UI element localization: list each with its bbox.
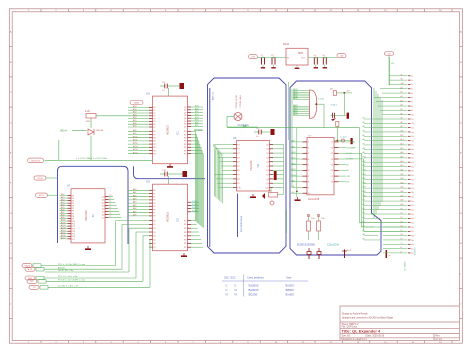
svg-text:Q7: Q7 [184,126,186,128]
svg-text:8a: 8a [411,106,413,108]
svg-text:D4: D4 [401,226,403,228]
svg-text:Q1: Q1 [266,149,269,151]
svg-text:P3: P3 [237,157,239,159]
svg-text:IC24a: IC24a [192,201,197,203]
svg-text:P3: P3 [153,116,155,118]
svg-text:P5: P5 [237,166,239,168]
svg-text:Y5: Y5 [109,210,111,212]
svg-text:P2: P2 [153,197,155,199]
svg-text:I1: I1 [308,142,310,144]
svg-text:P4: P4 [153,118,155,120]
svg-text:AB13: AB13 [293,113,297,116]
svg-text:30a: 30a [411,201,414,203]
svg-text:Q1: Q1 [153,224,155,226]
svg-text:Q6: Q6 [266,170,269,172]
svg-text:Y7: Y7 [109,216,111,218]
svg-text:O8: O8 [331,182,333,184]
svg-text:Q2: Q2 [184,112,186,114]
svg-text:AE8: AE8 [133,214,136,217]
svg-text:R2: R2 [184,228,186,230]
svg-text:P2: P2 [153,113,155,115]
svg-text:Y0: Y0 [109,195,111,197]
svg-text:GCN.TTX: GCN.TTX [31,160,40,162]
svg-text:AD15: AD15 [61,231,66,234]
svg-text:AD3: AD3 [133,113,137,116]
svg-text:7805: 7805 [298,52,304,55]
svg-text:I10: I10 [308,193,311,195]
svg-text:IC2: IC2 [146,180,151,184]
svg-text:AD17: AD17 [61,237,66,240]
svg-text:Q4: Q4 [184,118,186,120]
svg-text:AE6: AE6 [133,207,136,210]
svg-text:P5: P5 [153,121,155,123]
svg-text:Q2: Q2 [102,202,105,204]
svg-text:Updated and converted to KiCAD: Updated and converted to KiCAD by Marcel… [342,317,394,320]
svg-text:B.TX: B.TX [39,195,44,197]
svg-text:AD11: AD11 [133,139,137,142]
svg-text:MC6822: MC6822 [166,212,170,222]
svg-text:P7: P7 [153,127,155,129]
svg-text:Q0: Q0 [102,196,105,198]
svg-text:Q0: Q0 [153,220,155,222]
svg-text:P4: P4 [237,162,239,164]
svg-text:P12: P12 [153,144,156,146]
svg-text:I7: I7 [308,176,310,178]
svg-text:AE2: AE2 [133,194,136,197]
svg-text:Q3: Q3 [266,157,269,159]
svg-text:AB9: AB9 [291,145,294,148]
svg-text:Q7: Q7 [153,247,155,249]
svg-text:’BC000’: ’BC000’ [248,292,258,296]
svg-text:C2: C2 [261,55,263,57]
svg-text:GAL16V8: GAL16V8 [308,197,320,201]
svg-text:P10: P10 [237,187,240,189]
svg-text:74HC04N: 74HC04N [84,210,88,222]
svg-text:P1: P1 [237,149,239,151]
svg-text:Q1: Q1 [184,110,186,112]
svg-text:Q2: Q2 [266,153,269,155]
svg-text:P6: P6 [153,124,155,126]
svg-text:Q5: Q5 [102,211,105,213]
svg-text:AD16: AD16 [61,234,66,237]
svg-text:C7DW 1274C: C7DW 1274C [236,94,238,108]
svg-text:Q3: Q3 [153,232,155,234]
svg-text:AD15: AD15 [133,151,138,154]
svg-text:AE7: AE7 [133,210,136,213]
svg-text:’L’: ’L’ [225,284,228,288]
svg-text:P13: P13 [153,147,156,149]
svg-text:24a: 24a [411,175,414,177]
svg-text:AD1: AD1 [133,108,137,111]
svg-text:AB8: AB8 [291,140,294,143]
svg-text:P11: P11 [153,141,156,143]
svg-text:28a: 28a [411,192,414,194]
svg-text:R6: R6 [184,150,186,152]
svg-text:AD3: AD3 [61,201,65,204]
svg-text:IC2: IC2 [177,217,180,221]
svg-text:R1: R1 [184,224,186,226]
svg-text:Q8: Q8 [266,179,269,181]
svg-text:AD8: AD8 [61,214,65,217]
svg-text:Id: 1/1: Id: 1/1 [436,339,443,341]
svg-text:BD0: BD0 [195,106,199,108]
svg-text:P4: P4 [153,203,155,205]
svg-text:35a: 35a [411,222,414,224]
svg-text:Card address: Card address [247,276,264,280]
svg-text:9a: 9a [411,110,413,112]
svg-text:C12n/C14n: C12n/C14n [327,244,340,247]
svg-text:J: J [10,304,11,306]
svg-text:AD5: AD5 [61,206,65,209]
svg-text:Q6: Q6 [102,214,105,216]
svg-text:AD0: AD0 [133,105,137,108]
svg-text:AD2: AD2 [133,111,137,114]
svg-text:P15: P15 [153,154,156,156]
svg-text:11a: 11a [411,119,414,121]
svg-text:U6: U6 [233,136,237,140]
svg-text:Q3: Q3 [102,205,105,207]
svg-text:Q2: Q2 [153,228,155,230]
svg-text:I6: I6 [308,170,310,172]
svg-text:AD4: AD4 [61,203,65,206]
svg-text:Q9: Q9 [266,183,269,185]
svg-text:Q7: Q7 [266,175,269,177]
svg-text:19a: 19a [411,153,414,155]
svg-text:P1: P1 [153,193,155,195]
svg-text:D6: D6 [401,234,403,236]
svg-text:AD0: AD0 [61,193,65,196]
svg-text:Q5: Q5 [184,121,186,123]
svg-text:’L’: ’L’ [234,284,237,288]
svg-text:P9: P9 [153,134,155,136]
svg-text:P7: P7 [237,175,239,177]
svg-text:CT: CT [401,243,403,245]
svg-text:D7: D7 [401,239,403,241]
svg-text:AD14: AD14 [61,229,66,232]
svg-text:AD1: AD1 [61,196,65,199]
svg-text:’B+000’: ’B+000’ [285,284,295,288]
svg-text:I5: I5 [308,165,310,167]
svg-text:Y2: Y2 [109,201,111,203]
svg-text:9B: 9B [401,79,403,81]
svg-text:26a: 26a [411,184,414,186]
svg-text:I4: I4 [308,159,310,161]
svg-text:Size: A3: Size: A3 [342,335,351,338]
svg-text:P6: P6 [153,209,155,211]
svg-text:31a: 31a [411,205,414,207]
svg-text:Q4: Q4 [153,236,155,238]
svg-text:BD5: BD5 [195,120,199,122]
svg-text:Size: Size [286,276,292,280]
svg-text:16a: 16a [411,140,414,142]
svg-text:A7: A7 [67,184,71,188]
svg-text:IC24d: IC24d [192,210,197,212]
svg-text:14a: 14a [411,132,414,134]
svg-text:CS2: CS2 [347,176,351,178]
svg-text:4a: 4a [411,89,413,91]
svg-text:39a: 39a [411,240,414,242]
svg-text:DSL: DSL [291,186,295,188]
svg-text:AD7: AD7 [61,211,65,214]
svg-text:AD10: AD10 [61,219,66,222]
svg-text:AD13: AD13 [61,226,66,229]
svg-text:37a: 37a [411,231,414,233]
svg-text:I3: I3 [308,153,310,155]
svg-text:20a: 20a [411,158,414,160]
svg-text:O4: O4 [331,159,333,161]
svg-text:BD1: BD1 [195,108,199,110]
svg-text:I2: I2 [308,147,310,149]
svg-text:5a: 5a [411,93,413,95]
svg-text:Design by Anders Resvik: Design by Anders Resvik [342,313,368,316]
svg-text:Q4: Q4 [102,208,105,210]
svg-text:P14: P14 [153,150,156,152]
svg-text:74LS245: 74LS245 [249,160,253,171]
svg-text:R1: R1 [184,134,186,136]
svg-text:AE1: AE1 [133,191,136,194]
svg-text:32a: 32a [411,210,414,212]
svg-text:O7: O7 [331,176,333,178]
svg-text:P6: P6 [237,170,239,172]
svg-text:BD4: BD4 [195,117,199,119]
svg-text:’B10000’: ’B10000’ [248,284,259,288]
svg-text:J: J [460,304,461,306]
svg-text:BD2: BD2 [195,111,199,113]
svg-text:AB[0..15]: AB[0..15] [212,91,215,100]
svg-text:AD9: AD9 [133,132,137,135]
svg-text:P10: P10 [153,138,156,140]
svg-text:21a: 21a [411,162,414,164]
svg-text:D3: D3 [401,221,403,223]
svg-text:AD5: AD5 [133,119,137,122]
svg-text:’B10000’: ’B10000’ [248,288,259,292]
svg-text:AD12: AD12 [133,142,138,145]
svg-text:P1: P1 [153,110,155,112]
svg-text:40a: 40a [411,244,414,246]
svg-text:’B8000’: ’B8000’ [285,288,295,292]
svg-text:P0: P0 [153,107,155,109]
svg-text:C3: C3 [271,55,273,57]
svg-text:R4: R4 [184,144,186,146]
svg-text:QREL: QREL [134,102,140,104]
svg-text:| Date: 2025-05-30: | Date: 2025-05-30 [365,335,385,338]
svg-text:P3: P3 [153,200,155,202]
svg-text:Title: QL Expander 4: Title: QL Expander 4 [342,328,382,333]
svg-text:BL: BL [347,170,349,172]
svg-text:I8: I8 [308,182,310,184]
svg-text:AE0: AE0 [133,188,136,191]
svg-text:Q6: Q6 [153,243,155,245]
svg-text:’H’: ’H’ [234,288,238,292]
svg-text:A DGMAL: A DGMAL [347,141,355,144]
svg-text:Q1: Q1 [102,199,105,201]
svg-text:B.TX: B.TX [28,269,33,271]
svg-text:R3: R3 [184,232,186,234]
svg-text:AD7: AD7 [133,125,137,128]
svg-text:Jur RdL 3 + d9 1 + d7: Jur RdL 3 + d9 1 + d7 [58,285,79,288]
svg-text:AD6: AD6 [133,122,137,125]
svg-text:TC 16547: TC 16547 [405,261,407,271]
svg-text:Q0: Q0 [266,144,269,146]
svg-text:AD4: AD4 [133,116,137,119]
svg-text:AD8: AD8 [133,129,137,132]
svg-text:RG11: RG11 [283,43,290,46]
svg-text:13a: 13a [411,127,414,129]
svg-text:B: B [401,252,402,254]
svg-text:AB5: AB5 [291,180,294,183]
svg-text:R2: R2 [184,138,186,140]
svg-text:O3: O3 [331,153,333,155]
svg-text:17a: 17a [411,145,414,147]
svg-text:22a: 22a [411,166,414,168]
svg-text:34a: 34a [411,218,414,220]
svg-text:R0: R0 [184,220,186,222]
svg-text:IC24c: IC24c [192,207,197,209]
svg-text:D0: D0 [401,208,403,210]
svg-text:Q0: Q0 [184,107,186,109]
svg-text:D5: D5 [401,230,403,232]
svg-text:P0: P0 [153,190,155,192]
svg-text:Q6: Q6 [184,124,186,126]
svg-text:P5: P5 [153,206,155,208]
svg-text:D2: D2 [401,217,403,219]
svg-text:Q10: Q10 [265,187,269,189]
svg-text:O6: O6 [331,170,333,172]
svg-text:G: G [460,213,462,215]
svg-text:33a: 33a [411,214,414,216]
svg-text:P3 CS 6 + 3w CS MS 1 x low: P3 CS 6 + 3w CS MS 1 x low [58,280,85,282]
svg-text:1a: 1a [411,76,413,78]
svg-text:Y4: Y4 [109,207,111,209]
svg-text:BD6: BD6 [195,122,199,124]
svg-text:38a: 38a [411,235,414,237]
svg-text:Q5: Q5 [153,239,155,241]
svg-text:AD10: AD10 [133,135,138,138]
svg-text:AD9: AD9 [61,216,65,219]
svg-text:AE3: AE3 [133,198,136,201]
svg-text:1.9: 1.9 [33,287,36,289]
svg-text:P3 1 k + 10 Riv RA51 1 x low: P3 1 k + 10 Riv RA51 1 x low [58,263,85,266]
svg-text:IC1: IC1 [146,92,151,96]
svg-text:IC24b: IC24b [192,204,197,206]
svg-text:29a: 29a [411,197,414,199]
svg-text:P8: P8 [237,179,239,181]
svg-text:6a: 6a [411,97,413,99]
svg-text:R5: R5 [184,239,186,241]
svg-text:O2: O2 [331,147,333,149]
svg-text:36a: 36a [411,227,414,229]
svg-text:1a: 1a [389,255,391,257]
svg-text:Q4: Q4 [266,162,269,164]
svg-text:MC6821: MC6821 [166,125,170,135]
svg-text:AD13: AD13 [133,145,138,148]
svg-text:3a: 3a [411,84,413,86]
svg-text:P7: P7 [153,213,155,215]
svg-text:P2: P2 [237,153,239,155]
svg-text:C 16-1: C 16-1 [341,137,348,139]
svg-text:R0: R0 [184,131,186,133]
svg-text:’H’: ’H’ [225,292,229,296]
svg-text:I9: I9 [308,187,310,189]
svg-text:P17: P17 [72,239,75,241]
svg-text:AB19: AB19 [293,97,297,100]
svg-text:AL: AL [347,163,349,166]
svg-text:AB6: AB6 [220,153,223,156]
svg-text:P3 1 L 6 + 3w 1 x Ms: P3 1 L 6 + 3w 1 x Ms [58,276,77,278]
svg-text:AB14+: AB14+ [60,130,68,133]
svg-text:Y6: Y6 [109,213,111,215]
svg-text:P8: P8 [153,131,155,133]
svg-text:A/500d: A/500d [58,266,65,269]
svg-text:’H’: ’H’ [234,292,238,296]
svg-text:R6: R6 [184,243,186,245]
svg-text:R3: R3 [184,141,186,143]
svg-text:Q5: Q5 [266,166,269,168]
svg-text:25a: 25a [411,179,414,181]
svg-text:BD7: BD7 [195,125,199,127]
svg-text:BD3: BD3 [195,114,199,116]
svg-text:S1C S2C: S1C S2C [224,276,236,280]
svg-text:18a: 18a [411,149,414,151]
svg-text:P0: P0 [237,144,239,146]
svg-text:AE4: AE4 [133,201,136,204]
svg-text:C4: C4 [313,55,315,57]
svg-text:Jua 3 t M L + Ne: Jua 3 t M L + Ne [58,269,74,272]
svg-text:23a: 23a [411,171,414,173]
svg-text:O5: O5 [331,165,333,167]
svg-text:R5: R5 [184,147,186,149]
svg-text:’L’: ’L’ [225,288,228,292]
svg-text:1 x 1CTk 12MHz 1 x 1CTk 1kHz: 1 x 1CTk 12MHz 1 x 1CTk 1kHz [76,158,107,160]
svg-text:Rev:: Rev: [436,336,441,338]
svg-text:AE5: AE5 [133,204,136,207]
svg-text:P9: P9 [237,183,239,185]
svg-text:EC891/E10050B: EC891/E10050B [297,244,315,247]
svg-text:C7DW 1944: C7DW 1944 [240,95,242,108]
svg-text:AD12: AD12 [61,224,66,227]
svg-text:’B+000’: ’B+000’ [285,292,295,296]
svg-text:Q3: Q3 [184,115,186,117]
svg-text:12a: 12a [411,123,414,125]
svg-text:R7: R7 [184,154,186,156]
svg-text:IC36-1: IC36-1 [331,104,338,106]
svg-text:7a: 7a [411,102,413,104]
svg-text:A DGMAH: A DGMAH [347,146,356,149]
svg-text:10a: 10a [411,114,414,116]
svg-text:B10705/B10505A: B10705/B10505A [240,215,243,232]
svg-text:2.2k: 2.2k [85,109,91,113]
svg-text:2a: 2a [411,80,413,82]
svg-text:Q7: Q7 [102,217,105,219]
svg-text:P.TX4: P.TX4 [37,178,43,180]
svg-text:R7: R7 [184,247,186,249]
svg-text:IC1: IC1 [177,130,180,134]
svg-text:R4: R4 [184,236,186,238]
svg-text:B7: B7 [202,129,204,131]
svg-text:AD14: AD14 [133,148,138,151]
svg-text:27a: 27a [411,188,414,190]
svg-text:AD2: AD2 [61,198,65,201]
svg-text:AD6: AD6 [61,209,65,212]
svg-text:D1: D1 [401,213,403,215]
svg-text:G: G [10,213,12,215]
svg-text:15a: 15a [411,136,414,138]
svg-text:C6: C6 [322,55,324,57]
svg-text:B 4d 17: B 4d 17 [415,247,417,255]
svg-text:AD11: AD11 [61,221,65,224]
svg-text:1N4148: 1N4148 [96,130,104,132]
svg-text:O1: O1 [331,142,333,144]
